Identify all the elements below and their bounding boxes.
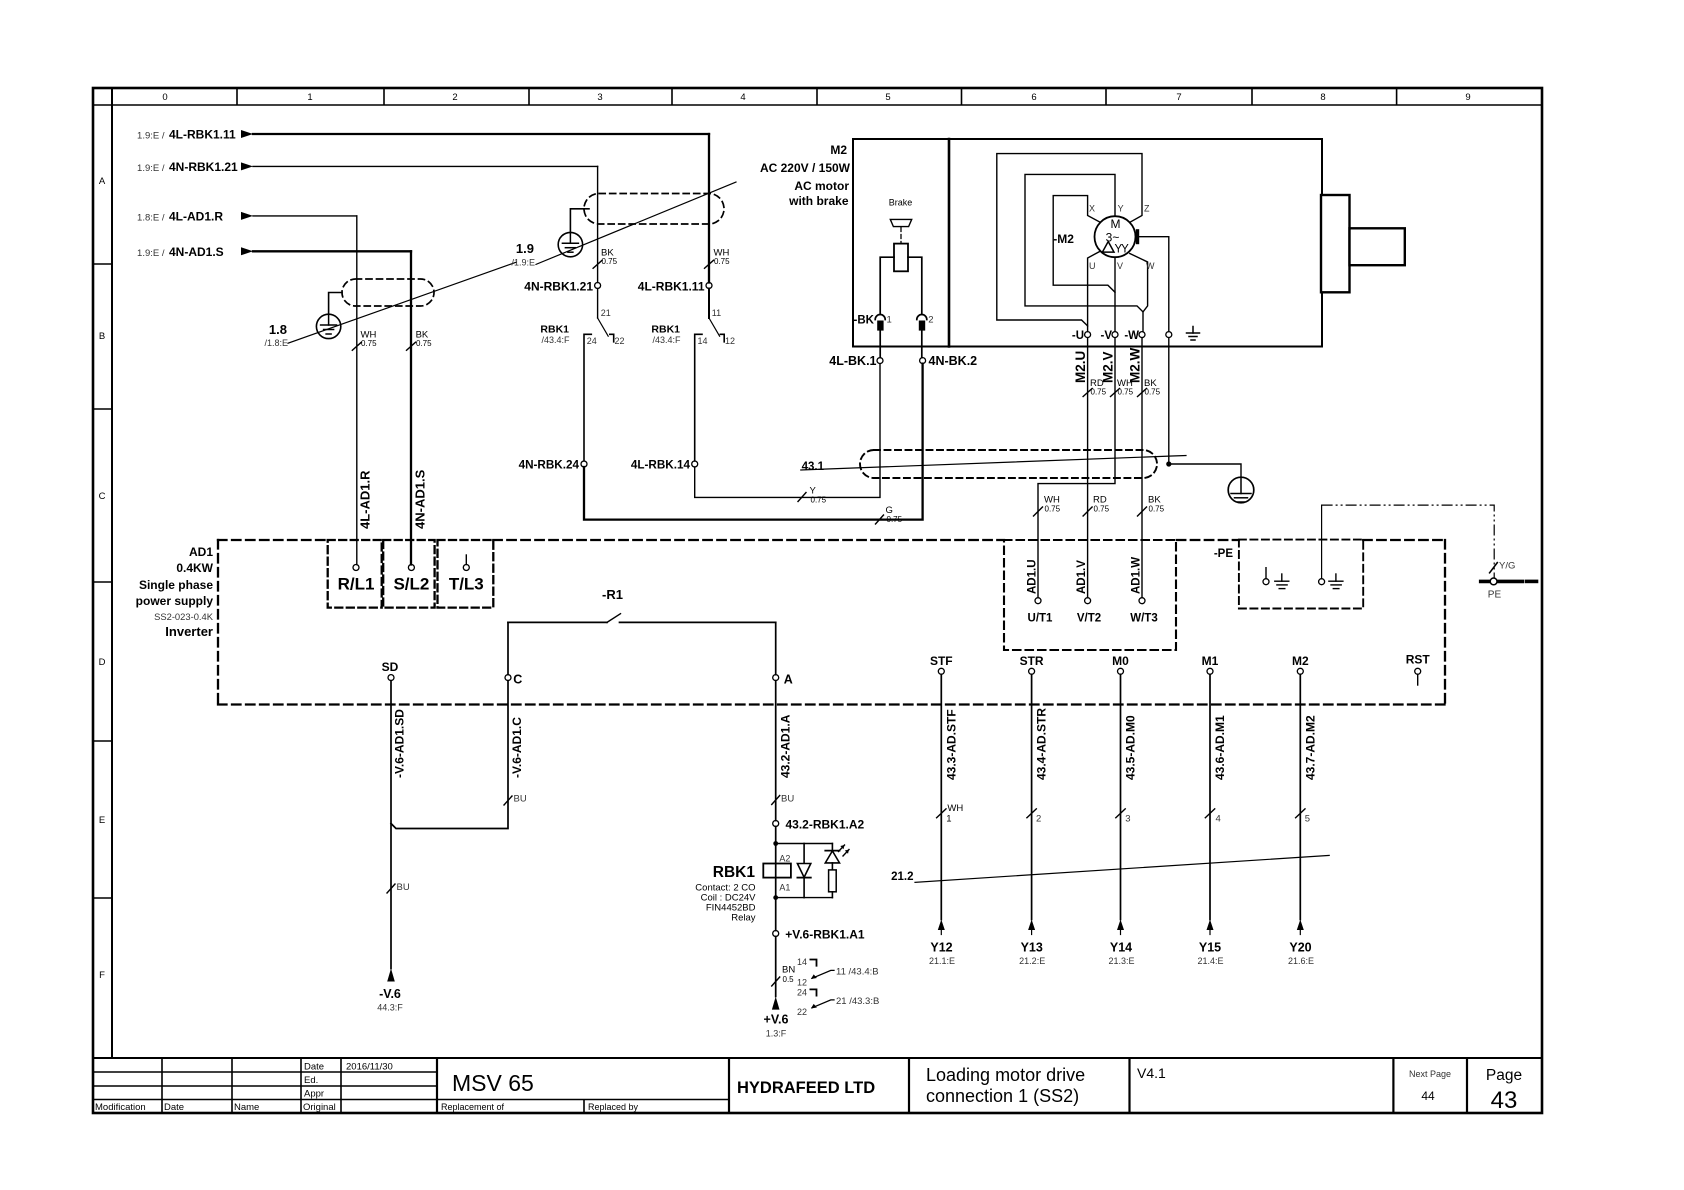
- PE dash-dot link: [1322, 505, 1495, 578]
- svg-text:/43.4:F: /43.4:F: [652, 335, 681, 345]
- wire slash BK lower: [1138, 507, 1147, 516]
- wire to earth circle: [1169, 464, 1241, 477]
- svg-text:5: 5: [1305, 814, 1310, 825]
- svg-text:BU: BU: [514, 794, 527, 805]
- cable 1.8 shield earth circle: [316, 293, 342, 339]
- svg-text:-V.6-AD1.C: -V.6-AD1.C: [510, 717, 524, 778]
- svg-text:0.75: 0.75: [361, 339, 377, 348]
- svg-text:AD1.U: AD1.U: [1027, 559, 1039, 594]
- wire A1: [775, 878, 777, 931]
- svg-text:3: 3: [1125, 814, 1130, 825]
- svg-text:-V.6: -V.6: [379, 987, 401, 1001]
- label Y12: [929, 941, 955, 967]
- svg-text:8: 8: [1320, 92, 1325, 103]
- diode D1: [797, 844, 810, 898]
- svg-text:43.2-RBK1.A2: 43.2-RBK1.A2: [786, 818, 865, 832]
- svg-text:43.3-AD.STF: 43.3-AD.STF: [944, 709, 958, 780]
- svg-text:V/T2: V/T2: [1077, 613, 1101, 625]
- svg-text:Y13: Y13: [1021, 941, 1043, 955]
- earth symbol at motor terminal: [1187, 327, 1200, 341]
- contact crossref 24 bracket: [810, 989, 816, 995]
- svg-text:-V.6-AD1.SD: -V.6-AD1.SD: [393, 709, 407, 778]
- wire 4L-RBK1.11 vertical: [708, 134, 710, 283]
- svg-text:0.75: 0.75: [602, 257, 618, 266]
- svg-text:A: A: [99, 176, 106, 187]
- svg-text:43.1: 43.1: [802, 461, 825, 473]
- svg-text:22: 22: [797, 1007, 807, 1017]
- svg-text:Y/G: Y/G: [1499, 561, 1515, 572]
- label 4L-AD1.R: [137, 210, 223, 224]
- terminal S/L2: [408, 565, 414, 571]
- svg-text:2016/11/30: 2016/11/30: [346, 1062, 393, 1073]
- svg-text:Inverter: Inverter: [165, 624, 213, 639]
- brake plug 2: [917, 315, 927, 358]
- svg-text:D: D: [99, 657, 106, 668]
- svg-text:A2: A2: [779, 854, 790, 864]
- svg-text:21.4:E: 21.4:E: [1197, 956, 1223, 966]
- motor M2 box: [853, 139, 1322, 347]
- wire slash 1: [937, 809, 946, 818]
- cable 43.1 diagonal pointer: [801, 456, 1186, 471]
- wire R1 to C: [507, 622, 509, 674]
- wire to diode branch: [776, 843, 833, 845]
- svg-text:A: A: [784, 673, 793, 687]
- svg-text:YY: YY: [1115, 244, 1130, 256]
- wire slash BN: [772, 977, 780, 986]
- svg-text:M: M: [1111, 217, 1121, 231]
- wire slash BU on C: [504, 796, 512, 805]
- svg-text:0.75: 0.75: [1145, 388, 1161, 397]
- svg-text:SS2-023-0.4K: SS2-023-0.4K: [154, 611, 214, 622]
- svg-text:0.75: 0.75: [811, 496, 827, 505]
- svg-text:Original: Original: [303, 1102, 336, 1113]
- terminal A: [773, 675, 779, 681]
- svg-text:RBK1: RBK1: [540, 324, 569, 336]
- terminal STF: [938, 668, 944, 674]
- terminal 4N-BK.2: [920, 358, 926, 364]
- svg-text:Y20: Y20: [1289, 941, 1311, 955]
- svg-text:Y12: Y12: [930, 941, 952, 955]
- svg-text:1: 1: [887, 315, 892, 326]
- earth terminal 1 in PE box: [1263, 568, 1289, 589]
- svg-text:SD: SD: [382, 660, 399, 674]
- label +V.6: [764, 1013, 789, 1039]
- label RD 0.75 lower: [1093, 495, 1110, 514]
- svg-text:C: C: [513, 673, 522, 687]
- label -V.6: [377, 987, 403, 1013]
- svg-text:T/L3: T/L3: [449, 575, 484, 594]
- label Y15: [1197, 941, 1223, 967]
- svg-text:0.75: 0.75: [1118, 388, 1134, 397]
- cable 1.9 shield earth circle: [558, 209, 589, 257]
- svg-text:1: 1: [307, 92, 312, 103]
- svg-text:21: 21: [601, 308, 611, 318]
- arrow Y14: [1117, 920, 1124, 935]
- motor shaft flange: [1321, 195, 1350, 292]
- wire M2 down: [1299, 674, 1301, 919]
- cable 43.1 dashed oval: [860, 450, 1157, 478]
- svg-text:43.7-AD.M2: 43.7-AD.M2: [1303, 715, 1317, 780]
- wire -U to V/T2 (RD): [1087, 338, 1089, 598]
- svg-text:MSV 65: MSV 65: [452, 1070, 534, 1096]
- svg-text:Name: Name: [234, 1102, 259, 1113]
- terminal +V.6-RBK1.A1: [773, 931, 779, 937]
- wire 4N-AD1.S vertical: [410, 251, 412, 564]
- label Y 0.75: [810, 486, 827, 505]
- wire slash BK upper: [1138, 389, 1147, 397]
- svg-text:AD1.V: AD1.V: [1076, 560, 1088, 594]
- svg-text:Relay: Relay: [731, 913, 756, 924]
- wire -V to U/T1 (WH): [1038, 338, 1115, 598]
- wire slash G: [876, 515, 884, 524]
- svg-text:-V: -V: [1101, 330, 1113, 342]
- svg-text:2: 2: [928, 315, 933, 326]
- wire slash WH on 4L-AD1.R: [352, 342, 361, 350]
- TITLE BLOCK: [93, 1058, 1467, 1113]
- potential +V.6 arrow: [772, 997, 780, 1010]
- terminal SD: [388, 675, 394, 681]
- label WH 0.75 on R wire: [361, 330, 378, 349]
- svg-text:1.9: 1.9: [516, 241, 534, 256]
- svg-text:0.75: 0.75: [1091, 388, 1107, 397]
- svg-text:-BK: -BK: [854, 315, 875, 327]
- svg-text:X: X: [1089, 204, 1095, 214]
- wire STF down: [940, 674, 942, 919]
- svg-text:1.9:E /: 1.9:E /: [137, 131, 165, 142]
- terminal 43.2-RBK1.A2: [773, 821, 779, 827]
- inverter AD1 dashed box: [218, 540, 1445, 705]
- svg-text:21.2:E: 21.2:E: [1019, 956, 1045, 966]
- label 4N-AD1.S: [137, 245, 224, 259]
- svg-text:21 /43.3:B: 21 /43.3:B: [836, 996, 879, 1007]
- wire slash RD lower: [1083, 507, 1092, 516]
- svg-text:2: 2: [1036, 814, 1041, 825]
- svg-text:F: F: [99, 970, 105, 981]
- label G 0.75: [886, 505, 903, 524]
- svg-text:Replacement of: Replacement of: [441, 1102, 505, 1112]
- svg-text:S/L2: S/L2: [393, 575, 429, 594]
- label 4L-RBK1.11: [137, 128, 236, 142]
- net arrow 4L-AD1.R: [241, 212, 357, 220]
- symbol delta-wye: [1102, 242, 1129, 256]
- contact crossref 12 arrow to 11: [811, 970, 834, 979]
- svg-text:U: U: [1089, 261, 1096, 271]
- svg-text:4: 4: [1216, 814, 1221, 825]
- svg-text:C: C: [99, 491, 106, 502]
- svg-text:0.75: 0.75: [714, 257, 730, 266]
- svg-text:7: 7: [1176, 92, 1181, 103]
- svg-text:Z: Z: [1144, 204, 1150, 214]
- wire slash WH on 4L-RBK1.11: [705, 260, 714, 268]
- svg-text:11: 11: [712, 308, 721, 318]
- wire slash Y/G: [1490, 563, 1498, 573]
- svg-text:4N-AD1.S: 4N-AD1.S: [169, 245, 224, 259]
- svg-text:Modification: Modification: [95, 1102, 146, 1113]
- wire slash 4: [1205, 809, 1214, 818]
- svg-text:STF: STF: [930, 654, 953, 668]
- terminal STR: [1029, 668, 1035, 674]
- terminal RST: [1415, 668, 1421, 685]
- svg-text:AD1: AD1: [189, 545, 213, 559]
- svg-text:+V.6: +V.6: [764, 1013, 789, 1027]
- svg-text:44.3:F: 44.3:F: [377, 1003, 403, 1013]
- terminal W/T3: [1139, 598, 1145, 604]
- svg-text:AD1.W: AD1.W: [1131, 557, 1143, 594]
- svg-text:14: 14: [698, 336, 708, 346]
- svg-text:E: E: [99, 815, 105, 826]
- wire 4N-RBK.24 to brake: [584, 364, 923, 520]
- svg-text:14: 14: [797, 957, 807, 967]
- label RD 0.75 upper: [1090, 378, 1107, 397]
- net arrow 4N-AD1.S: [241, 247, 411, 255]
- svg-text:21.6:E: 21.6:E: [1288, 956, 1314, 966]
- svg-text:connection 1 (SS2): connection 1 (SS2): [926, 1086, 1079, 1106]
- svg-text:/1.8:E: /1.8:E: [264, 338, 288, 348]
- svg-text:6: 6: [1031, 92, 1036, 103]
- motor winding loop Z (to -U): [997, 154, 1142, 332]
- svg-text:BU: BU: [781, 794, 794, 805]
- wire 4L-AD1.R vertical: [356, 216, 358, 565]
- terminal 4L-RBK.14: [692, 461, 698, 467]
- svg-text:0.75: 0.75: [416, 339, 432, 348]
- earth terminal 2 in PE box: [1319, 505, 1343, 588]
- wire C down joins SD: [391, 681, 508, 829]
- svg-text:B: B: [99, 331, 105, 342]
- svg-text:A1: A1: [779, 883, 790, 893]
- terminal M2: [1297, 668, 1303, 674]
- svg-text:0.75: 0.75: [1045, 505, 1061, 514]
- label M2 motor block: [760, 143, 851, 208]
- svg-text:2: 2: [452, 92, 457, 103]
- motor PE bar and earth wire: [1138, 231, 1169, 332]
- svg-text:44: 44: [1421, 1089, 1435, 1103]
- svg-text:Page: Page: [1486, 1067, 1522, 1084]
- svg-text:RBK1: RBK1: [651, 324, 680, 336]
- wire +V.6: [775, 937, 777, 997]
- wire slash 2: [1027, 809, 1036, 818]
- wire slash BK on 4N-AD1.S: [407, 342, 416, 350]
- svg-text:V4.1: V4.1: [1137, 1065, 1166, 1081]
- svg-text:with brake: with brake: [788, 194, 849, 208]
- terminal 4N-RBK.24: [581, 461, 587, 467]
- terminal -W: [1139, 332, 1145, 338]
- svg-text:0: 0: [162, 92, 167, 103]
- svg-text:RST: RST: [1406, 653, 1431, 667]
- label RBK1 right contact: [651, 324, 681, 346]
- wire slash BU on SD: [387, 884, 395, 893]
- PE dashed box: [1239, 540, 1363, 609]
- svg-text:M0: M0: [1112, 654, 1129, 668]
- LED with resistor: [825, 844, 849, 898]
- label WH 1: [946, 803, 963, 825]
- label Y20: [1288, 941, 1314, 967]
- svg-text:1.8: 1.8: [269, 322, 287, 337]
- svg-text:Date: Date: [164, 1102, 184, 1113]
- svg-text:11 /43.4:B: 11 /43.4:B: [836, 967, 879, 978]
- label BN 0.5: [782, 965, 795, 985]
- contact RBK1 21-22-24: [584, 289, 614, 462]
- svg-text:43.4-AD.STR: 43.4-AD.STR: [1035, 708, 1049, 780]
- wire R1 to A: [775, 622, 777, 674]
- svg-text:STR: STR: [1020, 654, 1044, 668]
- svg-text:M2.U: M2.U: [1073, 351, 1088, 383]
- label Y14: [1108, 941, 1134, 967]
- svg-text:24: 24: [587, 336, 597, 346]
- svg-text:4N-BK.2: 4N-BK.2: [929, 354, 978, 368]
- svg-text:4: 4: [740, 92, 745, 103]
- svg-text:43: 43: [1491, 1087, 1518, 1114]
- terminal M1: [1207, 668, 1213, 674]
- wire slash Y: [798, 493, 806, 502]
- svg-text:21.2: 21.2: [891, 871, 913, 883]
- svg-text:R/L1: R/L1: [338, 575, 375, 594]
- svg-text:AC 220V / 150W: AC 220V / 150W: [760, 161, 851, 175]
- svg-text:Next Page: Next Page: [1409, 1069, 1451, 1079]
- arrow Y15: [1207, 920, 1214, 935]
- svg-text:0.75: 0.75: [1149, 505, 1165, 514]
- PE bus bar: [1481, 578, 1537, 585]
- junction node A2: [773, 841, 778, 846]
- wire motor earth down: [1168, 338, 1170, 464]
- motor M circle: [1095, 216, 1136, 257]
- contact RBK1 11-12-14: [695, 289, 725, 462]
- terminal box R/L1: [328, 540, 382, 608]
- cable 1.8 dashed oval: [342, 279, 434, 306]
- svg-text:/43.4:F: /43.4:F: [541, 335, 570, 345]
- svg-text:RBK1: RBK1: [713, 864, 756, 881]
- cable 1.9 dashed oval: [584, 194, 724, 225]
- brake plug 1: [875, 315, 885, 358]
- svg-text:4L-BK.1: 4L-BK.1: [829, 354, 876, 368]
- svg-text:Single phase: Single phase: [139, 578, 213, 592]
- label RBK1 left contact: [540, 324, 570, 346]
- terminal C: [505, 675, 511, 681]
- wire 4L-RBK.14 to brake: [695, 364, 880, 498]
- motor box divider: [948, 139, 951, 347]
- terminal R/L1: [353, 565, 359, 571]
- label Y13: [1019, 941, 1045, 967]
- protective earth circle: [1228, 477, 1254, 503]
- wire 4N-RBK1.21 vertical: [597, 166, 599, 282]
- svg-text:power supply: power supply: [136, 594, 214, 608]
- svg-text:AC motor: AC motor: [794, 179, 849, 193]
- terminal -U: [1085, 332, 1091, 338]
- svg-text:-W: -W: [1124, 330, 1139, 342]
- svg-text:4N-RBK.24: 4N-RBK.24: [519, 459, 580, 472]
- label 1.8: [264, 322, 288, 348]
- wire from diode branch: [776, 897, 833, 899]
- svg-text:U/T1: U/T1: [1028, 613, 1054, 625]
- terminal M0: [1118, 668, 1124, 674]
- svg-text:12: 12: [797, 978, 807, 988]
- svg-text:Appr: Appr: [304, 1089, 324, 1100]
- terminal U/T1: [1035, 598, 1041, 604]
- svg-text:Y15: Y15: [1199, 941, 1221, 955]
- svg-text:M1: M1: [1202, 654, 1219, 668]
- svg-text:4L-RBK.14: 4L-RBK.14: [631, 459, 691, 472]
- wire STR down: [1031, 674, 1033, 919]
- cable 1.8 diagonal pointer: [288, 262, 516, 343]
- contact crossref 14 bracket: [810, 960, 816, 966]
- svg-text:24: 24: [797, 988, 807, 998]
- svg-text:12: 12: [725, 336, 735, 346]
- inverter box U/T1..W/T3: [1004, 540, 1176, 650]
- wire SD down: [390, 681, 392, 969]
- svg-text:0.5: 0.5: [783, 975, 795, 984]
- svg-text:21.3:E: 21.3:E: [1108, 956, 1134, 966]
- svg-text:V: V: [1117, 261, 1123, 271]
- svg-text:W/T3: W/T3: [1130, 613, 1157, 625]
- label WH 0.75 lower: [1044, 495, 1061, 514]
- brake symbol: [880, 219, 922, 313]
- junction earth node: [1166, 461, 1171, 466]
- contact crossref 22 arrow to 21: [811, 1000, 834, 1009]
- svg-text:W: W: [1146, 261, 1155, 271]
- relay coil RBK1: [763, 864, 791, 878]
- label BK 0.75 on 4N-RBK wire: [601, 248, 618, 267]
- wire -W to W/T3 (BK): [1141, 338, 1143, 598]
- svg-text:M2: M2: [1292, 654, 1309, 668]
- motor winding loop X (to -V): [1053, 196, 1115, 332]
- wire slash 5: [1296, 809, 1305, 818]
- switch -R1: [508, 614, 776, 623]
- arrow Y13: [1028, 920, 1035, 935]
- svg-text:21.1:E: 21.1:E: [929, 956, 955, 966]
- svg-text:+V.6-RBK1.A1: +V.6-RBK1.A1: [785, 928, 865, 942]
- svg-text:1.3:F: 1.3:F: [766, 1029, 787, 1039]
- svg-text:5: 5: [885, 92, 890, 103]
- svg-text:9: 9: [1465, 92, 1470, 103]
- cable 21.2 diagonal pointer: [915, 855, 1329, 882]
- wire M1 down: [1209, 674, 1211, 919]
- svg-text:-U: -U: [1072, 330, 1084, 342]
- svg-text:43.5-AD.M0: 43.5-AD.M0: [1124, 715, 1138, 780]
- svg-text:4L-RBK1.11: 4L-RBK1.11: [638, 280, 705, 294]
- svg-text:43.6-AD.M1: 43.6-AD.M1: [1213, 715, 1227, 780]
- svg-text:WH: WH: [947, 803, 963, 814]
- svg-text:Y: Y: [1118, 204, 1124, 214]
- arrow Y12: [938, 920, 945, 935]
- label motor M 3~: [1106, 217, 1121, 245]
- terminal 4L-RBK1.11: [706, 283, 712, 289]
- wire slash WH upper: [1111, 389, 1120, 397]
- svg-text:Ed.: Ed.: [304, 1075, 318, 1086]
- terminal T/L3: [463, 555, 469, 571]
- terminal motor earth: [1166, 332, 1172, 338]
- label BK 0.75 lower: [1148, 495, 1165, 514]
- svg-text:HYDRAFEED LTD: HYDRAFEED LTD: [737, 1079, 875, 1097]
- svg-text:Loading motor drive: Loading motor drive: [926, 1065, 1085, 1085]
- wire slash BU on A: [772, 796, 780, 805]
- svg-text:PE: PE: [1488, 590, 1502, 601]
- label WH 0.75 upper: [1117, 378, 1134, 397]
- wire M0 down: [1120, 674, 1122, 919]
- terminal -V: [1112, 332, 1118, 338]
- svg-text:22: 22: [615, 336, 625, 346]
- svg-text:Brake: Brake: [889, 198, 913, 208]
- svg-text:BU: BU: [397, 882, 410, 893]
- wire A2: [775, 827, 777, 878]
- junction node A1: [773, 895, 778, 900]
- svg-text:3: 3: [597, 92, 602, 103]
- terminal box S/L2: [383, 540, 434, 608]
- svg-text:43.2-AD1.A: 43.2-AD1.A: [779, 714, 793, 778]
- wire slash BK on 4N-RBK1.21: [593, 260, 602, 268]
- wire A down: [775, 681, 777, 821]
- label 4N-RBK1.21: [137, 160, 238, 174]
- label WH 0.75 on 4L-RBK wire: [714, 248, 731, 267]
- svg-text:4L-RBK1.11: 4L-RBK1.11: [169, 128, 236, 142]
